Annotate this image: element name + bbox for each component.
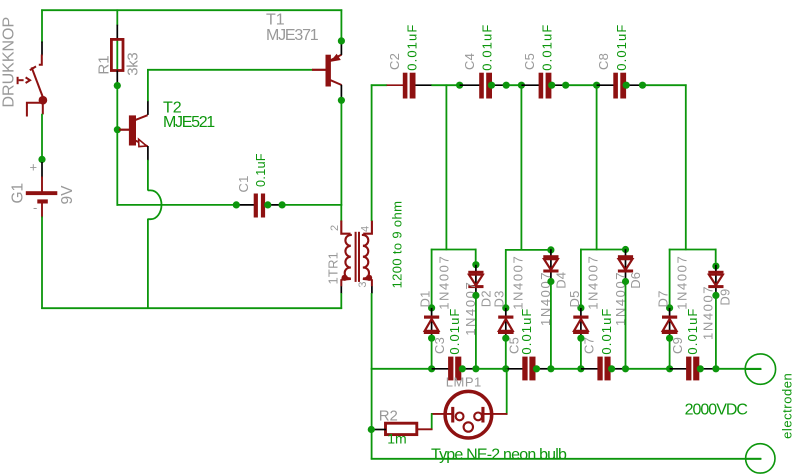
junction C4 right b [503, 82, 510, 89]
wire bottom electrode stub [746, 458, 762, 460]
svg-text:0.01uF: 0.01uF [479, 24, 494, 71]
svg-text:-: - [33, 200, 37, 215]
wire T2 emitter lower [147, 219, 149, 309]
wire stage1 jog [431, 249, 477, 251]
capacitor C3 0.01uF [432, 368, 449, 370]
battery G1 9V [41, 177, 43, 192]
wire C5 to C8 [565, 84, 597, 86]
node T1 emitter pin [340, 42, 342, 55]
wire output left column [371, 368, 373, 459]
svg-text:3k3: 3k3 [125, 53, 142, 76]
node LMP1 right lead [484, 413, 507, 415]
svg-text:3: 3 [357, 281, 369, 287]
junction rail D5 [577, 365, 584, 372]
capacitor C5 0.01uF bottom [506, 368, 523, 370]
wire C1 to TR1 node [282, 204, 342, 206]
node C4 pin 2 [489, 84, 507, 86]
neon bulb LMP1 [445, 391, 492, 438]
svg-text:4: 4 [360, 226, 372, 232]
svg-text:1200 to 9 ohm: 1200 to 9 ohm [390, 201, 405, 289]
junction D6 bottom [622, 278, 629, 285]
wire D2 column upper [475, 249, 477, 263]
transformer TR1 secondary coil [363, 234, 369, 279]
electrode top terminal [745, 354, 775, 384]
junction C8 right b [639, 82, 646, 89]
junction D7 bottom [666, 335, 673, 342]
svg-text:C4: C4 [462, 53, 477, 70]
svg-text:T1: T1 [266, 11, 285, 28]
transformer TR1 pin 4 lead [363, 221, 372, 234]
svg-text:1N4007: 1N4007 [700, 285, 715, 340]
wire stage3 jog [580, 249, 626, 251]
capacitor C7 0.01uF [581, 368, 598, 370]
node TR1 pin 1 lead [340, 279, 342, 286]
wire bottom-left rail [41, 307, 342, 309]
wire left column to switch [41, 9, 43, 42]
svg-text:C3: C3 [432, 337, 447, 354]
wire stage4 jog [669, 249, 717, 251]
svg-text:0.1uF: 0.1uF [254, 153, 268, 187]
transformer TR1 pin 2 lead [341, 221, 350, 234]
wire D5 column upper [580, 249, 582, 305]
junction D9 bottom [712, 292, 719, 299]
svg-text:C8: C8 [596, 53, 611, 70]
wire T2 collector to T1 base [147, 69, 149, 101]
node T1 collector pin [340, 85, 342, 98]
svg-text:1m: 1m [387, 431, 406, 447]
wire D1 to rail [431, 341, 433, 370]
junction battery plus [38, 156, 45, 163]
svg-text:1N4007: 1N4007 [586, 255, 601, 310]
wire D3 column upper [505, 249, 507, 305]
junction R1 bottom [114, 82, 121, 89]
svg-text:0.01uF: 0.01uF [539, 24, 554, 71]
junction D6 top [622, 246, 629, 253]
wire R2 to LMP1 elbow [431, 413, 433, 430]
node TR1 pin 3 lead [371, 279, 373, 286]
wire through R1 [116, 39, 118, 71]
diode D9 1N4007 [715, 265, 717, 295]
node switch top pin [41, 42, 43, 56]
svg-text:0.01uF: 0.01uF [405, 24, 420, 71]
diode D2 1N4007 [475, 265, 477, 295]
wire switch to battery [41, 114, 43, 157]
junction C8 right a [623, 82, 630, 89]
junction D4 bottom [547, 278, 554, 285]
node R2 pin2 lead [417, 428, 433, 430]
wire rail s2-s3 [551, 368, 581, 370]
svg-text:1N4007: 1N4007 [511, 255, 526, 310]
svg-text:0.01uF: 0.01uF [447, 308, 462, 355]
wire T2 emitter upper [147, 160, 149, 191]
wire TR1 pin3 down [371, 293, 373, 370]
node C5 pin 2 [549, 84, 566, 86]
resistor R2 1m [386, 423, 417, 434]
wire LMP1 right riser [506, 368, 508, 415]
junction rail D7 [666, 365, 673, 372]
capacitor C4 0.01uF [479, 73, 484, 99]
junction D1 bottom [428, 335, 435, 342]
svg-text:0.01uF: 0.01uF [599, 308, 614, 355]
capacitor C1 0.1uF [254, 194, 258, 218]
wire rail s3-s4 [626, 368, 670, 370]
wire feed 2 riser [520, 85, 522, 250]
junction D5 bottom [577, 335, 584, 342]
node battery plus pin [41, 162, 43, 178]
junction C4 pin1 [456, 82, 463, 89]
svg-text:+: + [30, 160, 38, 175]
node C4 pin 1 [460, 84, 480, 86]
wire battery to bottom rail [41, 217, 43, 310]
svg-text:1TR1: 1TR1 [326, 252, 341, 285]
wire secondary top riser [371, 84, 373, 221]
svg-text:9V: 9V [59, 185, 76, 205]
diode D7 1N4007 [669, 308, 671, 338]
svg-text:C5: C5 [522, 53, 537, 70]
svg-text:0.01uF: 0.01uF [685, 308, 700, 355]
wire D9 to rail [715, 298, 717, 370]
junction T1 collector [338, 97, 345, 104]
wire D2 to rail [475, 298, 477, 370]
junction D1 anode top [428, 304, 435, 311]
wire R1 top [116, 9, 118, 25]
svg-text:R1: R1 [96, 55, 113, 74]
svg-text:1N4007: 1N4007 [674, 255, 689, 310]
wire rail left segment [371, 368, 432, 370]
junction T2 base [114, 126, 121, 133]
electrode bottom terminal [746, 444, 775, 473]
switch S1 DRUKKNOP [18, 55, 43, 117]
junction C4 right a [488, 82, 495, 89]
wire feed 3 riser [596, 85, 598, 250]
wire D9 column upper [715, 249, 717, 263]
node R1 pin 1 [116, 25, 118, 40]
node C1 pin 1 [237, 204, 255, 206]
node T2 emitter pin [147, 146, 149, 161]
node C2 pin 1 [387, 84, 404, 86]
svg-text:R2: R2 [379, 407, 398, 424]
diode D3 1N4007 [505, 308, 507, 338]
junction D5 anode top [577, 304, 584, 311]
svg-text:D1: D1 [418, 290, 433, 307]
junction R2 left [368, 426, 375, 433]
junction rail D1 [428, 365, 435, 372]
wire D7 to rail [669, 341, 671, 370]
svg-text:Type NE-2 neon bulb: Type NE-2 neon bulb [431, 447, 567, 464]
node C5 pin 1 [521, 84, 539, 86]
svg-text:C7: C7 [582, 337, 597, 354]
junction rail D3 [502, 365, 509, 372]
svg-text:C9: C9 [670, 337, 685, 354]
junction T1 emitter [338, 37, 345, 44]
transistor T1 MJE371 [312, 69, 326, 71]
svg-text:MJE521: MJE521 [163, 114, 215, 131]
svg-text:0.01uF: 0.01uF [519, 308, 534, 355]
svg-text:C1: C1 [236, 175, 251, 192]
wire rail s1-s2 [476, 368, 506, 370]
wire C8 to corner and feed 4 [642, 84, 686, 86]
wire C2 to C4 [431, 84, 460, 86]
junction C5 right a [548, 82, 555, 89]
svg-text:D5: D5 [567, 290, 582, 307]
svg-text:electroden: electroden [779, 373, 794, 439]
junction C8 pin1 [593, 82, 600, 89]
svg-text:DRUKKNOP: DRUKKNOP [1, 17, 18, 108]
node T2 collector pin [147, 101, 149, 115]
svg-text:D6: D6 [628, 272, 643, 289]
svg-text:D4: D4 [553, 272, 568, 289]
junction rail D9 [712, 365, 719, 372]
wire bottom output rail [371, 458, 761, 460]
wire D4 to rail [550, 284, 552, 370]
node R2 pin1 [371, 429, 386, 431]
capacitor C9 0.01uF [670, 368, 687, 370]
diode D1 1N4007 [431, 308, 433, 338]
svg-text:2: 2 [329, 225, 341, 231]
node C8 pin 1 [597, 84, 614, 86]
wire T1 collector down [340, 103, 342, 206]
node C8 pin 2 [624, 84, 643, 86]
wire stage2 jog [505, 249, 552, 251]
svg-text:D9: D9 [717, 289, 732, 306]
junction D2 bottom [472, 292, 479, 299]
wire D1 column upper [431, 249, 433, 305]
wire top electrode stub [745, 368, 762, 370]
wire R1 to C1 corner [116, 88, 118, 206]
svg-text:0.01uF: 0.01uF [614, 24, 629, 71]
wire rail to electrode [716, 368, 761, 370]
wire D7 column upper [669, 249, 671, 305]
wire hop over C1 wire [148, 190, 162, 219]
junction D9 top [712, 263, 719, 270]
diode D6 1N4007 [625, 249, 627, 279]
wire D6 to rail [625, 284, 627, 370]
junction C1 left [233, 201, 240, 208]
junction D7 anode top [666, 304, 673, 311]
svg-text:G1: G1 [9, 183, 26, 204]
svg-text:2000VDC: 2000VDC [685, 401, 748, 418]
diode D4 1N4007 [550, 249, 552, 279]
capacitor C8 0.01uF [613, 73, 618, 99]
wire D3 to rail [505, 341, 507, 370]
junction C5 right b [562, 82, 569, 89]
wire D5 to rail [580, 341, 582, 370]
svg-text:C2: C2 [387, 53, 402, 70]
transformer TR1 primary coil [345, 234, 351, 279]
capacitor C5 0.01uF top [539, 73, 544, 99]
junction rail D6 [622, 365, 629, 372]
junction C1 right a [264, 201, 271, 208]
junction D4 top [547, 246, 554, 253]
svg-text:D3: D3 [492, 290, 507, 307]
svg-text:1N4007: 1N4007 [436, 255, 451, 310]
junction C5 pin1 [518, 82, 525, 89]
wire C4 to C5 [506, 84, 522, 86]
junction rail D2 [472, 365, 479, 372]
junction D3 bottom [502, 335, 509, 342]
transistor T2 MJE521 [119, 129, 129, 131]
wire node to TR1 pin2 [340, 204, 342, 221]
node R1 pin 2 [116, 71, 118, 84]
wire TR1 pin1 to rail [340, 293, 342, 309]
wire top rail [41, 9, 342, 11]
wire feed 1 riser [445, 84, 447, 250]
junction D2 top [472, 261, 479, 268]
svg-text:D7: D7 [656, 290, 671, 307]
junction C1 right b [279, 201, 286, 208]
transformer TR1 core [355, 232, 357, 282]
svg-text:LMP1: LMP1 [446, 375, 482, 390]
node LMP1 left lead [431, 413, 452, 415]
junction D3 anode top [502, 304, 509, 311]
junction rail D4 [547, 365, 554, 372]
resistor R1 [111, 39, 123, 70]
diode D5 1N4007 [580, 308, 582, 338]
capacitor C2 0.01uF [403, 73, 408, 99]
svg-text:MJE371: MJE371 [266, 27, 319, 44]
wire T1 emitter to rail [340, 9, 342, 38]
node C2 pin 2 [416, 84, 433, 86]
node C1 pin 2 [264, 204, 282, 206]
